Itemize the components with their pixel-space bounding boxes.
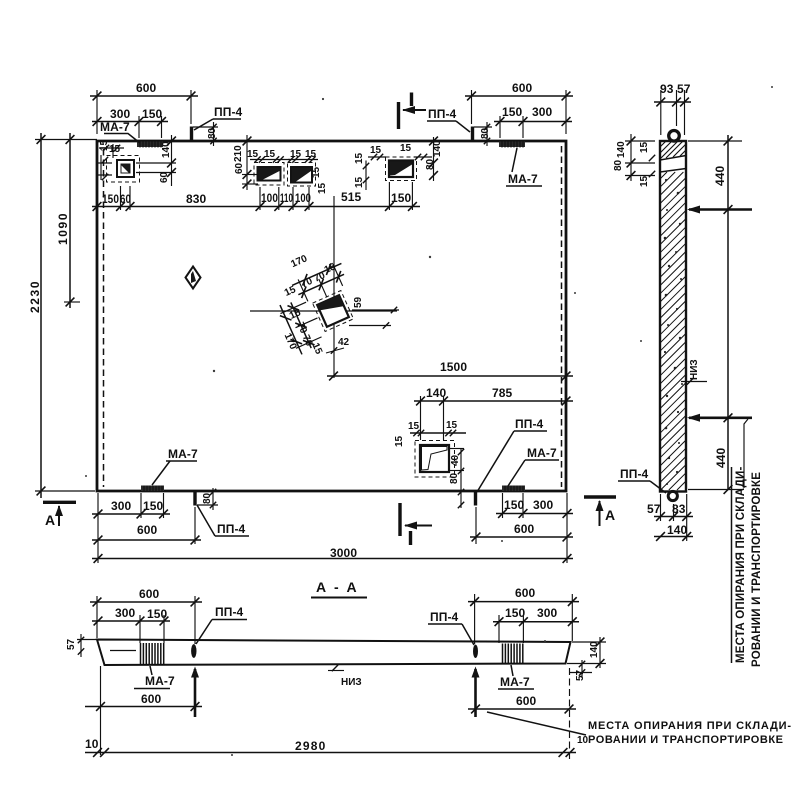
E6 inclined dimension 170 / 70 70 / 15 (upper)	[290, 259, 351, 308]
svg-text:15: 15	[290, 149, 302, 160]
svg-text:15: 15	[639, 175, 650, 187]
label 15 side top	[639, 141, 655, 161]
label MA-7 bottom-left with leader	[152, 447, 198, 485]
svg-text:15: 15	[400, 143, 412, 154]
dimension 600 top-left	[90, 90, 198, 134]
svg-text:15: 15	[639, 141, 650, 153]
svg-text:140: 140	[161, 141, 172, 158]
svg-text:150: 150	[102, 192, 119, 206]
side view lifting loop top	[669, 131, 680, 142]
svg-text:300: 300	[115, 606, 136, 620]
section arrow A bottom-right corner	[584, 497, 616, 526]
plan horizontal centerline	[250, 310, 397, 312]
vertical note text places of support	[732, 466, 764, 667]
svg-text:РОВАНИИ И ТРАНСПОРТИРОВКЕ: РОВАНИИ И ТРАНСПОРТИРОВКЕ	[588, 734, 784, 746]
label PP-4 section right with leader	[428, 610, 474, 645]
svg-text:600: 600	[137, 523, 158, 537]
dimension 300/150 top-left	[92, 116, 168, 138]
tube PP-4 mark top-left	[190, 127, 193, 142]
section dimension 600 left bottom	[85, 666, 202, 755]
svg-text:МЕСТА ОПИРАНИЯ ПРИ СКЛАДИ-: МЕСТА ОПИРАНИЯ ПРИ СКЛАДИ-	[588, 720, 792, 732]
svg-text:15: 15	[247, 149, 259, 160]
dimension 600 bottom-left	[92, 507, 201, 544]
svg-text:57: 57	[66, 638, 77, 650]
svg-text:440: 440	[714, 447, 728, 468]
svg-text:А: А	[45, 512, 55, 528]
svg-text:80: 80	[449, 472, 460, 484]
svg-text:НИЗ: НИЗ	[341, 677, 362, 688]
section MA-7 anchor left	[141, 643, 164, 665]
label PP-4 top-center with leader	[427, 107, 470, 132]
dimension 140/80 left of side view	[625, 134, 655, 181]
section MA-7 anchor right	[503, 644, 523, 664]
svg-text:15: 15	[354, 152, 365, 164]
svg-text:140: 140	[667, 523, 688, 537]
svg-text:42: 42	[338, 337, 350, 348]
svg-text:140: 140	[616, 141, 627, 158]
support leader line	[744, 419, 748, 488]
svg-text:ПП-4: ПП-4	[515, 417, 544, 431]
label MA-7 top-right with leader	[506, 148, 542, 186]
svg-text:15: 15	[446, 420, 458, 431]
svg-text:140: 140	[432, 140, 443, 157]
support arrow bottom	[687, 414, 752, 422]
svg-text:140: 140	[426, 386, 447, 400]
embed E2	[254, 163, 284, 186]
svg-text:МА-7: МА-7	[508, 172, 538, 186]
side view main hatch with aggregate dots	[660, 172, 686, 490]
label PP-4 side bottom with leader	[618, 467, 666, 493]
side view top hatch band	[660, 141, 686, 172]
section bottom dimension 10/2980	[85, 668, 576, 762]
embed E2 ticks 15	[250, 156, 290, 162]
svg-text:140: 140	[589, 641, 600, 658]
svg-text:А - А: А - А	[316, 579, 359, 595]
section A-A body	[97, 640, 571, 666]
svg-text:2230: 2230	[28, 280, 42, 313]
svg-text:А: А	[605, 507, 615, 523]
plan inner dashed line left	[103, 149, 105, 487]
support arrow top	[687, 206, 752, 214]
svg-text:МА-7: МА-7	[168, 447, 198, 461]
svg-text:57: 57	[677, 82, 691, 96]
rotated embed E6 center	[313, 291, 354, 332]
svg-text:МЕСТА ОПИРАНИЯ ПРИ СКЛАДИ-: МЕСТА ОПИРАНИЯ ПРИ СКЛАДИ-	[735, 466, 747, 663]
dimension 140 below side view	[654, 532, 693, 541]
svg-text:300: 300	[532, 105, 553, 119]
svg-text:1500: 1500	[440, 360, 467, 374]
svg-text:80: 80	[425, 158, 436, 170]
E5 right side mini dim lines	[448, 448, 464, 450]
section dimension 600 right bottom	[468, 705, 576, 714]
plan inner dashed line right	[561, 146, 563, 487]
label 15 side lower	[639, 171, 655, 187]
svg-text:15: 15	[408, 421, 420, 432]
svg-text:300: 300	[111, 499, 132, 513]
dimension row 150/60/830/100/110/100/515/150	[92, 182, 420, 211]
svg-text:300: 300	[533, 498, 554, 512]
dimension 3000	[92, 493, 573, 563]
svg-text:МА-7: МА-7	[500, 675, 530, 689]
svg-text:600: 600	[139, 587, 160, 601]
svg-text:40: 40	[450, 454, 461, 466]
label PP-4 top-left with leader	[194, 105, 243, 130]
section right end dimension 140	[567, 637, 606, 668]
section A-A title	[311, 579, 367, 598]
anchor plate MA-7 bottom-left	[141, 486, 164, 492]
svg-text:600: 600	[136, 81, 157, 95]
svg-text:МА-7: МА-7	[527, 446, 557, 460]
panel plan outline	[97, 141, 566, 491]
svg-text:150: 150	[147, 607, 168, 621]
svg-text:15: 15	[317, 182, 328, 194]
dimension 300/150 bottom-left	[92, 493, 170, 563]
embed E5 lower-right	[415, 441, 455, 478]
svg-text:300: 300	[110, 107, 131, 121]
section dimension 150/300 right	[493, 615, 579, 643]
svg-text:100: 100	[261, 191, 278, 205]
section dimension 57 left	[66, 634, 97, 657]
dimension 600 top-right	[465, 90, 573, 134]
mini dimension 80 bottom-left	[197, 488, 218, 510]
tube PP-4 mark bottom-left	[193, 492, 196, 506]
svg-text:150: 150	[391, 191, 412, 205]
label MA-7 top-left with leader	[100, 120, 140, 143]
dimension 600 bottom-right	[470, 507, 573, 544]
tube PP-4 mark bottom-right	[474, 492, 477, 506]
svg-text:100: 100	[295, 191, 311, 205]
svg-text:150: 150	[143, 499, 164, 513]
section PP-4 tube left	[191, 644, 196, 658]
svg-text:15: 15	[109, 144, 121, 155]
svg-text:83: 83	[672, 502, 686, 516]
svg-text:600: 600	[514, 522, 535, 536]
anchor plate MA-7 bottom-right	[502, 486, 525, 492]
svg-text:60: 60	[120, 192, 131, 206]
section support arrow right	[472, 667, 480, 718]
section dimension 600 right top	[468, 594, 579, 644]
mini dimension 80 top-right tick	[474, 122, 492, 146]
dimension 150/300 bottom-right	[496, 493, 573, 518]
svg-text:15: 15	[394, 435, 405, 447]
svg-text:15: 15	[305, 149, 317, 160]
extension line side bottom	[688, 489, 742, 491]
svg-text:600: 600	[141, 692, 162, 706]
svg-text:150: 150	[504, 498, 525, 512]
embed E1 dim ticks 15	[98, 144, 124, 180]
svg-text:80: 80	[207, 127, 218, 139]
dimension 57/83 below side view	[654, 494, 693, 541]
mark diamond symbol	[186, 267, 201, 289]
svg-text:80: 80	[480, 127, 491, 139]
mini dimension 80 top-left	[193, 122, 218, 146]
embed E1 top-left square	[107, 156, 140, 183]
svg-text:57: 57	[647, 502, 661, 516]
svg-text:60: 60	[234, 162, 245, 174]
svg-text:93: 93	[660, 82, 674, 96]
svg-text:ПП-4: ПП-4	[430, 610, 459, 624]
svg-text:10: 10	[577, 735, 589, 746]
label PP-4 bottom-left with leader	[197, 505, 249, 536]
side view lifting loop bottom	[668, 491, 677, 500]
svg-text:ПП-4: ПП-4	[214, 105, 243, 119]
svg-text:1090: 1090	[56, 212, 70, 245]
svg-text:57: 57	[575, 669, 586, 681]
svg-text:440: 440	[713, 165, 727, 186]
svg-text:ПП-4: ПП-4	[215, 605, 244, 619]
anchor plate MA-7 top-left	[137, 142, 163, 148]
mini dimension 80 bottom-right	[449, 448, 464, 508]
embed E3 ticks 15	[288, 156, 318, 162]
section cut mark A top	[399, 93, 427, 130]
dimension 93/57 above side view	[654, 90, 691, 135]
dimension 140/60 at E1	[136, 135, 176, 186]
label MA-7 section left with leader	[134, 666, 175, 689]
svg-text:150: 150	[142, 107, 163, 121]
svg-text:РОВАНИИ И ТРАНСПОРТИРОВКЕ: РОВАНИИ И ТРАНСПОРТИРОВКЕ	[751, 472, 763, 667]
embed E4	[386, 157, 417, 181]
svg-text:НИЗ: НИЗ	[689, 359, 700, 380]
svg-text:600: 600	[512, 81, 533, 95]
svg-text:ПП-4: ПП-4	[620, 467, 649, 481]
scan dust specks	[85, 86, 773, 756]
anchor plate MA-7 top-right	[499, 142, 525, 148]
section support arrow left	[191, 667, 199, 718]
svg-text:80: 80	[613, 159, 624, 171]
dimension 440 top right of side view	[688, 135, 742, 494]
svg-text:59: 59	[353, 296, 364, 308]
svg-text:МА-7: МА-7	[145, 674, 175, 688]
svg-text:ПП-4: ПП-4	[428, 107, 457, 121]
tube PP-4 mark top-right	[471, 127, 474, 142]
label NIZ section	[328, 665, 362, 688]
section arrow A bottom-left corner	[43, 502, 76, 528]
plan vertical centerline	[333, 196, 335, 378]
svg-text:150: 150	[505, 606, 526, 620]
svg-text:515: 515	[341, 190, 362, 204]
dimension 1500	[327, 372, 573, 381]
svg-text:10: 10	[85, 737, 99, 751]
svg-text:15: 15	[370, 145, 382, 156]
dimension 150/300 top-right	[494, 116, 572, 138]
embed E3	[288, 163, 316, 187]
section centerline dash	[110, 650, 136, 652]
svg-text:2980: 2980	[295, 739, 327, 753]
svg-text:785: 785	[492, 386, 513, 400]
side view body	[660, 141, 686, 492]
svg-text:600: 600	[516, 694, 537, 708]
svg-text:МА-7: МА-7	[100, 120, 130, 134]
svg-text:15: 15	[264, 149, 276, 160]
svg-text:600: 600	[515, 586, 536, 600]
dimension 2230 left	[35, 133, 97, 498]
E6 label 42 with tick	[326, 337, 350, 354]
label NIZ side view	[681, 359, 707, 384]
dimension 15/15 at E5	[410, 430, 466, 436]
svg-text:110: 110	[280, 191, 293, 205]
embed E4 ticks 15	[363, 154, 432, 190]
dimension 140 at E5	[414, 396, 573, 440]
dimension 210/60 left of embed row	[242, 135, 258, 190]
section dimension 600 left top	[90, 596, 202, 644]
label PP-4 section left with leader	[196, 605, 247, 644]
svg-text:3000: 3000	[330, 546, 357, 560]
svg-text:210: 210	[233, 145, 244, 162]
section dimension 300/150 left	[92, 615, 170, 643]
label PP-4 lower-right with leader	[477, 417, 547, 492]
svg-text:15: 15	[311, 166, 322, 178]
label MA-7 lower-right with leader	[508, 446, 559, 486]
svg-text:150: 150	[502, 105, 523, 119]
bottom note leader	[487, 712, 586, 735]
dimension 1090 left	[64, 133, 80, 308]
section right end dimension 57	[570, 660, 592, 681]
E6 inclined dimension 170 / 70 70 / 15 (lower-left)	[276, 293, 328, 356]
svg-text:80: 80	[202, 492, 213, 504]
svg-text:300: 300	[537, 606, 558, 620]
svg-text:60: 60	[159, 171, 170, 183]
E6 dimension 59 right	[349, 296, 399, 328]
svg-text:ПП-4: ПП-4	[217, 522, 246, 536]
svg-text:830: 830	[186, 192, 207, 206]
section PP-4 tube right	[473, 645, 478, 658]
section cut mark A bottom-center	[400, 503, 432, 545]
label MA-7 section right with leader	[498, 665, 534, 689]
dimension 140/80 right of E4	[429, 137, 438, 181]
